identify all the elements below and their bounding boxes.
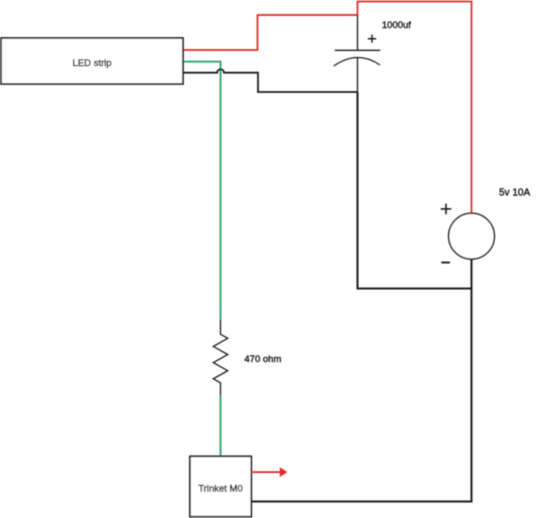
component LED strip (box) [1, 38, 183, 84]
wire black GND: LED strip to capacitor bottom (with hop over green) [183, 69, 358, 92]
power source PS1 (circle) [449, 213, 495, 259]
polarity - of source [441, 262, 450, 264]
svg-text:LED strip: LED strip [72, 58, 111, 69]
arrow red data output from Trinket M0 [251, 467, 287, 477]
label 470 ohm [244, 354, 281, 365]
component Trinket M0 (box) [190, 456, 251, 516]
label 5v 10A [499, 188, 530, 199]
label 1000uf [382, 20, 411, 31]
wire green signal: resistor bottom to Trinket M0 [220, 396, 222, 457]
polarity + of source [441, 204, 452, 215]
polarity + of capacitor [368, 35, 376, 43]
resistor R1 (zigzag) [213, 319, 227, 396]
wire black: source - terminal down and left to Trinket M0 [251, 259, 471, 501]
wire black GND: capacitor bottom to source - terminal [358, 92, 472, 289]
wire green signal: LED strip to resistor top [183, 62, 221, 319]
capacitor C1 (polarized, 1000uf) [334, 16, 380, 93]
wire red V+ : LED strip to source + terminal [183, 2, 472, 214]
svg-text:470 ohm: 470 ohm [244, 354, 281, 365]
svg-text:5v 10A: 5v 10A [499, 188, 530, 199]
svg-text:1000uf: 1000uf [382, 20, 411, 31]
svg-text:Trinket M0: Trinket M0 [198, 484, 243, 495]
